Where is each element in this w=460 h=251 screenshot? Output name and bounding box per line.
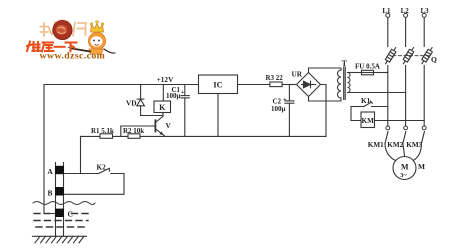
svg-text:KM3: KM3 (406, 141, 422, 149)
electrode A (55, 166, 64, 174)
contactor coil KM (361, 112, 375, 128)
svg-text:UR: UR (292, 70, 303, 79)
svg-text:K: K (159, 103, 166, 112)
wire phase L3 lower (423, 66, 425, 127)
svg-text:+: + (283, 96, 287, 103)
water surface (33, 202, 95, 205)
diode VD (137, 85, 145, 116)
wire phase L1 lower (387, 66, 389, 127)
svg-text:VD: VD (126, 98, 137, 107)
logo mascot (69, 21, 116, 54)
wire bridge DC minus to bottom rail (321, 85, 327, 137)
svg-text:3~: 3~ (400, 172, 407, 179)
relay coil K (154, 85, 171, 116)
svg-text:Q: Q (431, 55, 437, 64)
bridge rectifier UR (297, 73, 321, 97)
svg-text:+12V: +12V (157, 75, 174, 84)
wire KM3 to motor (413, 144, 422, 161)
capacitor C1 (181, 85, 189, 137)
wire +12V top rail (44, 84, 199, 86)
wire bridge AC bottom to transformer secondary bottom (309, 97, 342, 102)
node L1 terminal (386, 13, 390, 46)
switch Q linkage (393, 55, 430, 57)
wire K1 to KM coil (351, 107, 361, 121)
water dashes row 1 (34, 213, 88, 215)
wire bottom rail (81, 135, 327, 137)
svg-text:B: B (48, 189, 53, 198)
switch K2 (99, 168, 110, 173)
wire transformer primary bottom to L2 (348, 92, 406, 94)
svg-text:L1: L1 (382, 7, 391, 15)
svg-text:M: M (401, 163, 409, 172)
wire R3 to bridge (282, 84, 296, 86)
svg-text:KM1: KM1 (368, 141, 384, 149)
wire KM coil to L3 (375, 120, 425, 122)
svg-text:IC: IC (213, 81, 222, 90)
svg-text:100µ: 100µ (166, 92, 181, 100)
svg-text:+: + (181, 89, 185, 96)
wire drop from rail to probe A (80, 136, 82, 173)
wire KM1 to motor (385, 144, 396, 161)
wire base branch from R1-R2 node (121, 126, 155, 136)
resistor R3 (270, 82, 282, 87)
logo red ball (53, 20, 72, 40)
switch Q pole 2 (401, 46, 415, 65)
svg-text:T: T (342, 59, 348, 68)
water dashes row 2 (34, 220, 88, 222)
node L3 terminal (422, 13, 426, 46)
switch Q pole 1 (383, 46, 397, 65)
water dashes row 3 (36, 226, 86, 228)
wire phase L2 lower (405, 66, 407, 127)
op-amp U1 IC block (199, 75, 238, 136)
switch Q pole 3 (420, 46, 434, 65)
logo watermark characters (41, 22, 87, 36)
electrode B (55, 187, 64, 196)
svg-text:R3 22: R3 22 (266, 74, 284, 82)
svg-text:KM2: KM2 (387, 141, 403, 149)
svg-text:V: V (166, 121, 172, 130)
contact KM3 (421, 126, 426, 144)
svg-text:R2 10k: R2 10k (123, 127, 144, 135)
wire KM2 to motor (403, 144, 405, 157)
resistor R1 (100, 134, 113, 139)
wire bridge AC top to transformer secondary top (309, 68, 342, 73)
probe column (56, 163, 64, 237)
node L2 terminal (404, 13, 408, 46)
ground (33, 236, 87, 243)
svg-text:FU 0.5A: FU 0.5A (355, 63, 380, 71)
svg-text:KM: KM (362, 117, 375, 125)
wire IC output to R3 (238, 84, 270, 86)
svg-text:L3: L3 (421, 7, 430, 15)
svg-text:www.dzsc.com: www.dzsc.com (40, 51, 106, 62)
svg-text:K2: K2 (97, 163, 107, 171)
wire K2 fixed side loop to electrode B (64, 174, 125, 195)
svg-text:M: M (418, 162, 425, 171)
transformer T (338, 67, 351, 100)
svg-text:L2: L2 (401, 7, 410, 15)
svg-text:A: A (47, 167, 53, 176)
contact KM1 (385, 126, 390, 144)
svg-text:K1: K1 (361, 97, 371, 105)
wire VD anode to collector node (141, 115, 163, 117)
wire left drop from rail to probe C (44, 85, 56, 214)
svg-text:R1 5.1k: R1 5.1k (91, 127, 114, 135)
svg-text:100µ: 100µ (271, 105, 286, 113)
motor M (393, 157, 416, 180)
contact K1 (351, 101, 388, 107)
electrode C (55, 209, 64, 217)
wire electrode A to K2 (64, 173, 99, 175)
resistor R2 (128, 134, 140, 139)
fuse FU (348, 70, 388, 75)
transistor V (155, 116, 164, 136)
logo text 维库一下 (27, 42, 77, 52)
capacitor C2 (285, 85, 294, 137)
contact KM2 (403, 126, 408, 144)
